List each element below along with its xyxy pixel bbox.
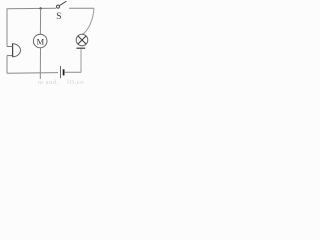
svg-text:S: S [56,12,61,22]
svg-text:M: M [37,36,45,46]
svg-text:m and. ‖O.co: m and. ‖O.co [38,79,84,86]
